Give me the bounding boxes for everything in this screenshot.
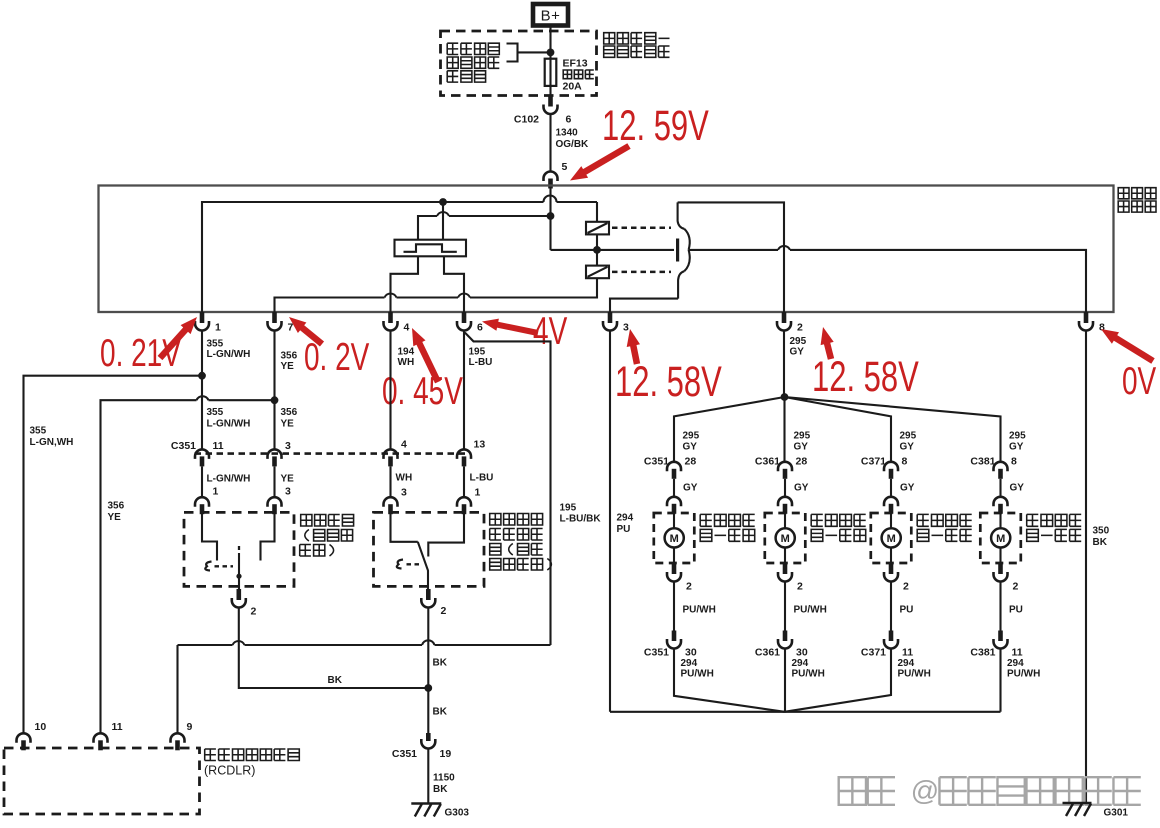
svg-text:PU/WH: PU/WH: [1007, 669, 1040, 680]
svg-text:13: 13: [474, 439, 486, 451]
svg-text:L-BU: L-BU: [469, 357, 493, 368]
wire GY 左后: [890, 479, 892, 498]
svg-text:350: 350: [1093, 526, 1110, 537]
svg-text:C361: C361: [755, 647, 780, 659]
wire 295 GY pin2 to fanout: [783, 331, 785, 398]
svg-text:C351: C351: [644, 647, 669, 659]
connector RCDLR pin 10: [17, 733, 31, 742]
relay actuation dashed link upper: [612, 226, 671, 229]
lock mode switch box: [395, 240, 467, 257]
wire RCDLR pin 9 riser: [176, 645, 178, 733]
svg-text:L-GN/WH: L-GN/WH: [207, 349, 251, 360]
svg-text:195: 195: [469, 347, 486, 358]
svg-text:GY: GY: [900, 483, 915, 494]
wire lock switch output BK: [239, 607, 428, 688]
ground G301: [1063, 802, 1092, 805]
wire fan to actuator RR: [785, 397, 1001, 462]
wire pin 3 riser to lower contact: [610, 299, 678, 312]
svg-text:11: 11: [902, 647, 913, 659]
svg-text:11: 11: [1012, 647, 1023, 659]
hop of top bus over pin5 riser: [544, 196, 557, 203]
svg-text:3: 3: [285, 486, 291, 498]
relay armature upper: [684, 229, 690, 250]
wire 356 pin7 down to C351: [273, 331, 275, 451]
red annotation 4V: [533, 310, 568, 354]
svg-text:GY: GY: [683, 483, 698, 494]
svg-text:BK: BK: [433, 707, 448, 718]
svg-text:294: 294: [792, 658, 809, 669]
svg-text:295: 295: [794, 431, 811, 442]
svg-text:C351: C351: [171, 440, 196, 452]
lock switch right contact: [261, 512, 275, 560]
label 车门执行 右后 line 1: [1027, 514, 1039, 526]
svg-text:0. 2V: 0. 2V: [304, 336, 370, 380]
svg-text:C371: C371: [861, 647, 886, 659]
svg-text:PU/WH: PU/WH: [794, 605, 827, 616]
motor M 右前: [776, 528, 795, 547]
wires actuators to collector: [674, 649, 1001, 712]
svg-text:355: 355: [30, 426, 47, 437]
relay armature lower: [684, 250, 690, 271]
label 遥控门锁接收器: [205, 749, 216, 761]
hop pin8 bus over pin2 riser: [778, 246, 790, 250]
connector actuator pin 2 右前: [783, 563, 788, 574]
svg-text:YE: YE: [281, 361, 295, 372]
label 器 右前 line 2: [811, 529, 823, 541]
wire 355 branch to RCDLR pin 10: [24, 376, 203, 733]
connector lock switch pin 2: [237, 589, 242, 600]
svg-text:2: 2: [686, 581, 692, 593]
svg-text:GY: GY: [900, 442, 915, 453]
hop link over passenger output: [233, 641, 245, 645]
svg-text:C351: C351: [392, 748, 417, 760]
svg-text:C351: C351: [644, 456, 669, 468]
svg-text:GY: GY: [794, 483, 809, 494]
junction dot coil riser on common bus: [593, 246, 601, 254]
connector driver switch pin 3: [384, 497, 398, 506]
red arrow for 12.58V left: [633, 344, 637, 364]
svg-text:GY: GY: [1010, 483, 1025, 494]
battery feed B+ terminal: [533, 4, 568, 26]
svg-text:11: 11: [112, 721, 123, 733]
wire common bus to pin 8: [689, 250, 1086, 312]
relay coil K1 upper: [596, 202, 598, 222]
door actuator dashed box 左前: [654, 513, 695, 563]
bracket link to distribution note: [507, 44, 551, 62]
connector C351 pin 13: [457, 449, 471, 458]
connector driver switch pin 1: [457, 497, 471, 506]
svg-text:4: 4: [404, 322, 410, 334]
svg-text:3: 3: [285, 440, 291, 452]
motor M 左前: [665, 528, 684, 547]
connector C381 pin 8: [994, 462, 1008, 472]
svg-text:2: 2: [903, 581, 909, 593]
svg-text:BK: BK: [433, 784, 448, 795]
svg-text:C361: C361: [755, 456, 780, 468]
svg-text:295: 295: [1009, 431, 1026, 442]
svg-text:2: 2: [441, 605, 447, 617]
svg-text:G303: G303: [445, 808, 470, 819]
wire GY 左前: [673, 479, 675, 498]
svg-text:19: 19: [440, 748, 452, 760]
svg-text:294: 294: [898, 658, 915, 669]
svg-text:1150: 1150: [433, 773, 455, 784]
wire PU 左前: [673, 582, 675, 631]
svg-text:3: 3: [401, 487, 407, 499]
svg-text:C381: C381: [970, 456, 995, 468]
connector RCDLR pin 11: [94, 733, 108, 742]
wire fan to actuator RF: [783, 397, 785, 462]
junction dot on B+ wire: [547, 49, 555, 57]
svg-text:2: 2: [1013, 581, 1019, 593]
label 中央门锁 line 1: [490, 514, 501, 526]
wire 356 branch to RCDLR pin 11: [101, 400, 275, 733]
svg-text:1: 1: [213, 486, 219, 498]
red arrow for 0.21V: [160, 328, 187, 358]
connector C351 pin 3: [268, 449, 282, 458]
lock switch pole dashed link: [238, 546, 240, 553]
svg-text:2: 2: [797, 581, 803, 593]
red annotation 12.58V left: [615, 357, 722, 405]
wire C351-11 to lock switch: [201, 467, 203, 498]
label 锁装置 (lock unit) line 2: [1118, 201, 1129, 212]
wire 195 branch to L-BU/BK: [465, 333, 551, 646]
connector C351 pin 4: [384, 449, 398, 458]
red arrow for 0.45V: [419, 342, 439, 383]
red annotation 0.21V: [100, 332, 181, 376]
driver switch lever: [418, 542, 428, 589]
red arrow for 0V: [1114, 337, 1153, 361]
svg-text:0V: 0V: [1122, 360, 1157, 404]
driver switch throw dashed: [407, 563, 422, 565]
svg-text:5: 5: [562, 161, 568, 173]
svg-text:L-BU: L-BU: [470, 473, 494, 484]
wire driver switch output BK: [427, 607, 429, 733]
label 器 左后 line 2: [917, 529, 929, 541]
wire pin7 riser to coil bus: [275, 278, 598, 312]
connector RCDLR pin 9: [171, 733, 185, 742]
wire into motor 左前: [673, 513, 675, 528]
wire switch to pin 4: [391, 256, 419, 312]
motor M 右后: [991, 528, 1010, 547]
connector driver switch pin 2: [426, 589, 431, 600]
label 门锁开关 line 1: [301, 515, 312, 527]
label 线路系统 (power distribution schematic) line 1: [447, 43, 458, 54]
svg-text:356: 356: [281, 351, 298, 362]
motor M 左后: [882, 528, 901, 547]
label 器 右后 line 2: [1027, 529, 1039, 541]
wire PU 右后: [999, 582, 1001, 631]
svg-text:194: 194: [398, 347, 415, 358]
wire 195 pin6 down to C351: [463, 331, 465, 451]
svg-text:@: @: [911, 775, 939, 806]
svg-text:PU: PU: [900, 605, 914, 616]
svg-text:C381: C381: [970, 647, 995, 659]
door lock switch passenger dashed box: [184, 512, 294, 586]
hop link over driver output: [422, 640, 435, 645]
wire out of motor 右后: [999, 548, 1001, 564]
red annotation 0V: [1122, 360, 1157, 404]
svg-text:OG/BK: OG/BK: [556, 139, 590, 150]
wire switch drop from top bus: [442, 202, 444, 240]
svg-text:295: 295: [900, 431, 917, 442]
svg-text:8: 8: [1011, 456, 1017, 468]
svg-text:294: 294: [681, 658, 698, 669]
watermark 头条@汽修技师众微联: [839, 777, 866, 805]
svg-text:YE: YE: [281, 419, 295, 430]
relay actuation dashed link lower: [612, 271, 671, 274]
hop 356 branch over 355 wire: [197, 396, 209, 400]
svg-text:0. 21V: 0. 21V: [100, 332, 181, 376]
junction dot on 356 wire: [271, 396, 279, 404]
svg-text:BK: BK: [328, 675, 343, 686]
svg-text:1: 1: [475, 487, 481, 499]
driver switch throw curl: [397, 560, 403, 569]
label 关驾驶 line 3: [490, 544, 501, 556]
svg-text:6: 6: [477, 322, 483, 334]
wire mid bus to lock switch: [418, 216, 551, 240]
label 保险丝盒- (fuse box) line 1: [604, 33, 615, 44]
wire 1150 to ground: [427, 749, 429, 804]
svg-text:M: M: [887, 533, 896, 545]
svg-text:(RCDLR): (RCDLR): [204, 764, 255, 778]
wire PU 左后: [890, 582, 892, 631]
svg-text:L-BU/BK: L-BU/BK: [560, 514, 602, 525]
connector actuator pin 2 右后: [998, 563, 1003, 574]
svg-text:30: 30: [685, 647, 697, 659]
svg-text:B+: B+: [541, 8, 561, 25]
connector C351 pin 11: [195, 449, 209, 458]
wire 1340 OG/BK: [549, 114, 551, 172]
svg-text:356: 356: [281, 407, 298, 418]
wire 294 PU pin3 to collector: [609, 331, 611, 712]
connector C102 pin 6: [548, 96, 553, 107]
svg-text:C102: C102: [514, 114, 539, 126]
svg-text:M: M: [996, 533, 1005, 545]
wire out of motor 左后: [890, 548, 892, 564]
wire into motor 左后: [890, 513, 892, 528]
connector pin 1 of central lock unit: [200, 312, 205, 323]
svg-text:G301: G301: [1104, 808, 1129, 819]
wire 350 BK pin8 to ground G301: [1085, 331, 1087, 803]
svg-text:EF13: EF13: [563, 58, 588, 70]
label 员座车门 line 4: [490, 559, 501, 571]
svg-text:2: 2: [251, 606, 257, 618]
svg-text:YE: YE: [108, 512, 122, 523]
connector lock switch pin 1: [195, 497, 209, 506]
wire C351-4 to driver switch: [389, 467, 391, 498]
red arrow for 0.2V: [301, 327, 322, 345]
connector C351 pin 30: [672, 631, 677, 642]
svg-text:C371: C371: [861, 456, 886, 468]
wire 195 link to RCDLR pin 9: [178, 644, 551, 646]
svg-text:355: 355: [207, 339, 224, 350]
fuse EF13 20A: [549, 59, 551, 86]
svg-text:L-GN/WH: L-GN/WH: [207, 474, 251, 485]
wire into motor 右后: [999, 513, 1001, 528]
red annotation 0.2V: [304, 336, 370, 380]
hop coil bus over pin4 wire: [385, 294, 397, 298]
connector actuator pin 1 左前: [667, 497, 681, 507]
label 中的配电 line 2: [447, 57, 458, 68]
lock switch pole: [238, 553, 240, 589]
label 车门执行 左后 line 1: [917, 514, 929, 526]
svg-text:356: 356: [108, 501, 125, 512]
label 示意图 line 3: [447, 71, 458, 82]
svg-text:GY: GY: [1009, 442, 1024, 453]
label 和防盗开 line 2: [490, 529, 501, 541]
driver lock switch dashed box: [374, 512, 485, 586]
svg-text:295: 295: [790, 336, 807, 347]
red arrow for 12.59V: [583, 146, 629, 173]
wire out of motor 左前: [673, 548, 675, 564]
central door lock unit box 中央门锁装置: [99, 186, 1114, 313]
svg-text:BK: BK: [1093, 537, 1108, 548]
red annotation 12.59V: [602, 101, 709, 149]
wire C351-3 to lock switch: [273, 467, 275, 498]
driver switch left contact: [391, 512, 418, 541]
connector pin 8 of central lock unit: [1084, 312, 1089, 323]
connector pin 4 of central lock unit: [388, 312, 393, 323]
hop coil bus over pin6 wire: [458, 294, 470, 298]
svg-text:195: 195: [560, 503, 577, 514]
wire common bus from pin5: [551, 249, 675, 251]
lock mode switch contacts: [404, 244, 457, 252]
connector C371 pin 8: [884, 462, 898, 472]
connector pin 2 of central lock unit: [782, 312, 787, 323]
svg-text:295: 295: [683, 431, 700, 442]
connector actuator pin 1 右后: [994, 497, 1008, 507]
wire upper contact to pin 2: [678, 202, 784, 312]
label 车门执行 右前 line 1: [811, 514, 823, 526]
svg-text:9: 9: [187, 721, 193, 733]
red annotation 12.58V right: [812, 352, 919, 400]
svg-text:0. 45V: 0. 45V: [382, 370, 463, 414]
svg-text:WH: WH: [398, 357, 415, 368]
svg-text:12. 59V: 12. 59V: [602, 101, 709, 149]
label 发动机罩下 (under hood) line 2: [604, 46, 615, 57]
red arrow for 12.58V right: [827, 342, 831, 359]
svg-text:PU: PU: [617, 524, 631, 535]
wire PU 右前: [784, 582, 786, 631]
svg-text:M: M: [670, 533, 679, 545]
wire fan to actuator LR: [785, 397, 892, 462]
label 车门执行 左前 line 1: [700, 514, 712, 526]
wire 194 pin4 down to C351: [389, 331, 391, 451]
connector pin 6 of central lock unit: [462, 312, 467, 323]
connector pin 7 of central lock unit: [272, 312, 277, 323]
svg-text:294: 294: [617, 513, 634, 524]
svg-text:PU/WH: PU/WH: [683, 605, 716, 616]
hop of mid bus over switch drop: [437, 212, 449, 216]
connector actuator pin 1 左后: [884, 497, 898, 507]
connector actuator pin 2 左前: [672, 563, 677, 574]
connector actuator pin 1 右前: [778, 497, 792, 507]
wire out of motor 右前: [784, 548, 786, 564]
lock switch pivot dot: [236, 574, 241, 579]
svg-text:28: 28: [796, 456, 808, 468]
svg-text:M: M: [781, 533, 790, 545]
connector C351 dashed boundary: [195, 452, 469, 455]
wire pin1 riser and top bus: [202, 202, 597, 312]
relay contact pole bar: [676, 239, 679, 262]
relay coil K2 lower: [586, 266, 609, 279]
svg-text:PU/WH: PU/WH: [792, 669, 825, 680]
door actuator dashed box 右前: [765, 513, 806, 563]
connector lock switch pin 3: [268, 497, 282, 506]
wire GY 右后: [999, 479, 1001, 498]
connector C381 pin 11: [998, 631, 1003, 642]
svg-text:20A: 20A: [563, 81, 583, 93]
svg-text:1340: 1340: [556, 128, 579, 139]
svg-text:2: 2: [797, 322, 803, 334]
label 乘客座 line 2: [305, 530, 309, 542]
wire pin5 riser into box: [549, 188, 551, 250]
junction dot fanout: [781, 393, 789, 401]
svg-text:WH: WH: [396, 473, 413, 484]
connector C351 pin 28: [667, 462, 681, 472]
relay contact upper lead to pin2 line: [678, 202, 685, 228]
connector C351 pin 19: [426, 733, 431, 741]
wire 355 pin1 down to C351: [201, 331, 203, 451]
svg-text:8: 8: [902, 456, 908, 468]
connector pin 5 of central lock unit: [544, 172, 558, 181]
svg-text:28: 28: [685, 456, 697, 468]
svg-text:YE: YE: [281, 474, 295, 485]
label 器 左前 line 2: [700, 529, 712, 541]
red arrow for 4V: [496, 324, 538, 333]
label 保险丝 (fuse): [563, 70, 571, 79]
door actuator dashed box 右后: [980, 513, 1021, 563]
wire B+ to fuse box: [549, 26, 551, 59]
svg-text:294: 294: [1007, 658, 1024, 669]
svg-text:L-GN/WH: L-GN/WH: [207, 419, 251, 430]
label 车门 line 3: [300, 545, 311, 557]
relay coil riser between coils: [596, 234, 598, 265]
junction dot BK wires: [424, 684, 432, 692]
wire C351-13 to driver switch: [463, 467, 465, 498]
wire GY 右前: [784, 479, 786, 498]
connector C361 pin 28: [778, 462, 792, 472]
lock switch throw dashed: [215, 565, 234, 567]
svg-text:30: 30: [796, 647, 808, 659]
wire fan to actuator LF: [674, 397, 785, 462]
wire switch to pin 6: [444, 256, 464, 312]
connector actuator pin 2 左后: [889, 563, 894, 574]
junction dot on 355 wire: [198, 372, 206, 380]
svg-text:PU: PU: [1009, 605, 1023, 616]
label 中央门 (central door) line 1: [1118, 188, 1129, 199]
svg-text:GY: GY: [794, 442, 809, 453]
ground G303: [411, 802, 441, 805]
svg-text:BK: BK: [433, 658, 448, 669]
svg-text:355: 355: [207, 407, 224, 418]
wire collector bus: [610, 711, 1001, 713]
svg-text:10: 10: [35, 721, 47, 733]
junction dot top bus to lock switch: [439, 198, 447, 206]
lock switch left contact: [202, 512, 217, 560]
svg-text:6: 6: [566, 114, 572, 126]
svg-text:4: 4: [401, 439, 407, 451]
connector C371 pin 11: [889, 631, 894, 642]
connector C361 pin 30: [783, 631, 788, 642]
svg-text:GY: GY: [790, 347, 805, 358]
svg-text:11: 11: [213, 440, 224, 452]
relay contact lower lead: [678, 271, 684, 298]
connector pin 3 of central lock unit: [608, 312, 613, 323]
svg-text:12. 58V: 12. 58V: [615, 357, 722, 405]
red annotation 0.45V: [382, 370, 463, 414]
